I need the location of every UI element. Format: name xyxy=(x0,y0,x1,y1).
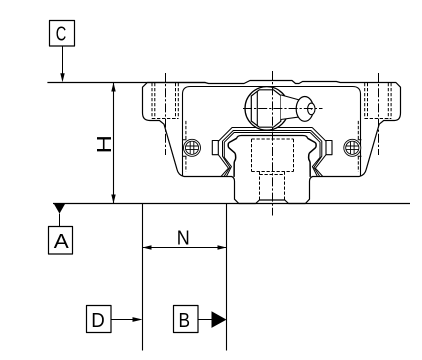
carriage block outline xyxy=(143,81,401,204)
label C frame xyxy=(50,21,75,47)
dimension N line xyxy=(143,247,227,249)
seal band line 1 outer xyxy=(216,128,328,177)
datum line A (bottom reference line) xyxy=(53,203,410,205)
datum A triangle xyxy=(54,204,65,214)
left seal tab xyxy=(212,141,218,155)
svg-text:N: N xyxy=(177,227,190,249)
seal lip contour left xyxy=(228,138,237,177)
right seal tab xyxy=(326,141,332,155)
label B frame xyxy=(174,306,199,333)
H arrow down xyxy=(111,195,115,204)
grease nipple hex base xyxy=(251,90,280,127)
left hidden line behind screw (dashed) xyxy=(185,121,187,172)
seal lip top edge over rail xyxy=(237,136,308,139)
label C leader xyxy=(62,46,64,74)
rail counterbore (dashed hidden) xyxy=(252,139,294,200)
svg-text:H: H xyxy=(94,135,116,154)
label D leader xyxy=(111,319,134,321)
svg-text:D: D xyxy=(91,310,105,332)
nipple stem cone xyxy=(281,95,300,120)
extension line D (block side) xyxy=(142,204,144,351)
N arrow right xyxy=(218,245,227,249)
nipple axis center line (dash-dot) xyxy=(243,108,323,110)
extension line B (rail side) xyxy=(226,204,228,351)
right hole center line (dash-dot) xyxy=(378,73,380,155)
center line vertical (dash-dot) xyxy=(272,71,274,216)
left hole center line (dash-dot) xyxy=(165,73,167,155)
seal band line 3 inner xyxy=(224,133,320,177)
rail mounting hole exit edge xyxy=(259,199,284,201)
label A frame xyxy=(49,227,73,255)
svg-text:A: A xyxy=(54,231,70,253)
grease nipple boss circle xyxy=(245,87,289,131)
nipple ball end xyxy=(296,97,313,122)
nipple tip xyxy=(308,103,315,115)
nipple tip center dot xyxy=(311,108,313,110)
seal lip contour right xyxy=(307,138,316,177)
right hidden line behind screw (dashed) xyxy=(357,121,359,172)
H arrow up xyxy=(111,83,115,92)
label D frame xyxy=(87,306,112,333)
label D arrow xyxy=(133,317,143,322)
datum B triangle xyxy=(212,311,227,328)
svg-text:C: C xyxy=(56,23,67,45)
left flange threaded hole (dashed) xyxy=(152,83,178,119)
left pad ticks on end-cap wall xyxy=(183,140,187,157)
seal band line 2 middle xyxy=(223,131,322,177)
label B leader xyxy=(198,319,213,321)
right pad ticks on end-cap wall xyxy=(358,140,362,157)
svg-text:B: B xyxy=(179,310,191,332)
right flange threaded hole (dashed) xyxy=(365,83,391,119)
label C arrow xyxy=(60,73,64,82)
datum A stem xyxy=(59,214,61,227)
right end-cap screw (phillips head) xyxy=(344,139,361,156)
datum line C (top reference line) xyxy=(47,82,205,84)
end-cap inner top edge and side walls xyxy=(183,87,361,177)
dimension H line xyxy=(113,83,115,204)
nipple hex facet line xyxy=(256,91,258,127)
left end-cap screw (phillips head) xyxy=(184,139,201,156)
N arrow left xyxy=(143,245,152,249)
